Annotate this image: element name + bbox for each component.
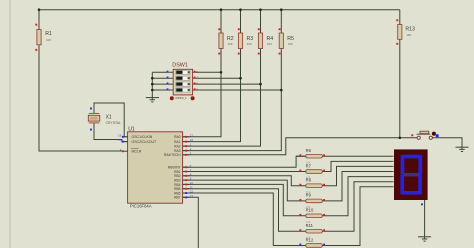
DSW1 left pin markers: [167, 71, 169, 73]
wire DSW1 row1: [152, 71, 221, 73]
display pin stubs: [393, 156, 395, 187]
resistor R8: [299, 178, 325, 194]
svg-text:OSC2/CLKOUT: OSC2/CLKOUT: [132, 140, 158, 144]
resistor R5: [279, 28, 294, 54]
U1 right pin labels: [164, 135, 181, 200]
junction node top R3: [239, 8, 242, 11]
svg-text:R4: R4: [267, 36, 274, 42]
button pin marker: [411, 134, 413, 136]
wire top rail: [39, 9, 400, 11]
resistor R13: [396, 19, 415, 45]
junction node DSW bus row4: [151, 89, 154, 92]
segment a: [403, 155, 420, 159]
svg-text:R3: R3: [247, 36, 254, 42]
svg-text:R2: R2: [227, 36, 234, 42]
svg-text:R7: R7: [306, 163, 312, 168]
button dark dot: [432, 132, 436, 136]
junction node top R2: [220, 8, 223, 11]
svg-text:R10: R10: [306, 208, 314, 213]
wire R5 column to RA3: [183, 10, 281, 151]
junction node DSW bus row3: [151, 83, 154, 86]
U1 pin stubs right: [183, 137, 190, 198]
sheet border line: [9, 0, 11, 248]
svg-text:OSC1/CLKIN: OSC1/CLKIN: [132, 135, 153, 139]
wire OSC1 pin stub: [123, 136, 127, 138]
junction node top R5: [280, 8, 283, 11]
U1 right pin numbers: [190, 133, 194, 198]
DSW1 right pin markers: [194, 71, 196, 73]
push button: [411, 131, 439, 139]
U1 left pin markers: [122, 136, 124, 138]
wire R13 column: [399, 10, 401, 138]
DSW1 switch slot 1: [176, 70, 190, 74]
DSW1 corner dot left: [170, 96, 174, 100]
svg-text:R8: R8: [306, 178, 312, 183]
svg-text:RA2: RA2: [174, 145, 181, 149]
wire R3 column to RA1: [183, 10, 241, 142]
resistor R12: [299, 237, 325, 247]
svg-text:10K: 10K: [247, 42, 252, 46]
button actuator bar: [417, 133, 431, 135]
resistor R3: [238, 28, 253, 54]
segment f: [401, 155, 405, 174]
resistor R7: [299, 163, 325, 179]
wire R6 left lead: [296, 155, 306, 157]
wire RA4 to button: [183, 138, 417, 155]
svg-text:X1: X1: [106, 114, 112, 120]
svg-text:RA4/T0CKI: RA4/T0CKI: [164, 153, 181, 157]
svg-text:R12: R12: [306, 237, 314, 242]
wire crystal to OSC2: [94, 123, 128, 142]
svg-text:17: 17: [190, 133, 194, 137]
wire RB3 to R9: [183, 172, 393, 201]
button terminal right: [429, 136, 432, 139]
svg-text:13: 13: [190, 194, 194, 198]
svg-text:R1: R1: [45, 31, 52, 37]
wire RB1 to R7: [183, 161, 393, 171]
U1 left pin numbers: [118, 133, 122, 151]
resistor R10: [299, 208, 325, 224]
button blue dot: [436, 134, 439, 137]
svg-text:PIC16F84A: PIC16F84A: [130, 204, 152, 209]
svg-text:R9: R9: [306, 193, 312, 198]
button cap: [420, 131, 429, 134]
ground symbol display: [418, 237, 431, 241]
junction node button R13: [399, 137, 402, 140]
wire RB4 to R10: [183, 177, 393, 216]
microcontroller U1 PIC16F84A: [118, 127, 193, 209]
wire DSW1 row3: [152, 83, 260, 85]
wire OSC2 pin stub: [123, 141, 127, 143]
svg-text:RB7: RB7: [174, 196, 181, 200]
svg-text:MCLR: MCLR: [132, 150, 142, 154]
wire RB7 down off sheet: [183, 197, 198, 248]
svg-text:R5: R5: [287, 36, 294, 42]
junction node DSW row4 col: [280, 89, 283, 92]
segment c: [418, 175, 422, 195]
resistor R9: [299, 193, 325, 209]
wire RB0 to R6: [183, 156, 393, 167]
display dp marker: [421, 203, 423, 205]
svg-text:15: 15: [118, 138, 122, 142]
svg-text:DIPSW_4: DIPSW_4: [175, 97, 187, 100]
svg-text:CRYSTAL: CRYSTAL: [106, 121, 121, 125]
svg-text:10K: 10K: [46, 38, 51, 42]
wire RB2 to R8: [183, 166, 393, 185]
segment b: [418, 155, 422, 174]
ground symbol button: [456, 147, 469, 151]
segment e: [400, 175, 404, 195]
svg-text:R11: R11: [306, 223, 314, 228]
segment g off: [403, 173, 420, 177]
button terminal left: [417, 136, 420, 139]
ground symbol DSW1: [146, 98, 159, 102]
junction node DSW row2 col: [239, 77, 242, 80]
junction node DSW row3 col: [259, 83, 262, 86]
wire R4 column to RA2: [183, 10, 261, 146]
junction node top R1: [38, 8, 41, 11]
resistor R6: [299, 148, 325, 164]
wire DSW1 row2: [152, 77, 240, 79]
svg-text:16: 16: [118, 133, 122, 137]
wire RB5 to R11: [183, 182, 393, 232]
svg-text:10K: 10K: [288, 42, 293, 46]
segment d: [403, 191, 420, 195]
wire crystal to OSC1: [94, 103, 128, 137]
svg-text:18: 18: [190, 138, 194, 142]
resistor R4: [258, 28, 273, 54]
resistor R2: [218, 28, 233, 54]
U1 right pin state markers: [185, 136, 187, 198]
svg-text:RA1: RA1: [174, 140, 181, 144]
junction node DSW bus row2: [151, 77, 154, 80]
DSW1 switch slot 3: [176, 82, 190, 86]
wire R2 column to RA0: [183, 10, 221, 137]
svg-text:DSW1: DSW1: [172, 62, 188, 68]
wire R1 column to MCLR: [39, 10, 123, 151]
resistor R1: [35, 24, 52, 51]
svg-text:10K: 10K: [267, 42, 272, 46]
wire DSW1 ground bus: [151, 72, 153, 97]
svg-text:R13: R13: [405, 26, 415, 32]
resistor R11: [299, 223, 325, 239]
svg-text:10K: 10K: [227, 42, 232, 46]
wire DSW1 row4: [152, 89, 281, 91]
wire MCLR pin stub: [123, 150, 127, 152]
svg-text:RA0: RA0: [174, 135, 181, 139]
svg-text:U1: U1: [128, 127, 135, 133]
wire button to ground: [432, 138, 462, 147]
DSW1 switch slot 2: [176, 76, 190, 80]
seven segment display: [393, 149, 428, 205]
U1 left pin labels: [132, 135, 158, 153]
svg-text:R6: R6: [306, 148, 312, 153]
junction node DSW row1 col: [220, 71, 223, 74]
dip switch DSW1: [167, 62, 199, 100]
wire display common to ground: [424, 200, 426, 237]
svg-text:10K: 10K: [406, 33, 411, 37]
crystal X1: [88, 108, 121, 131]
DSW1 switch slot 4: [176, 88, 190, 92]
junction node top R4: [259, 8, 262, 11]
DSW1 corner dot right: [191, 96, 195, 100]
wire RB6 to R12: [183, 187, 393, 246]
